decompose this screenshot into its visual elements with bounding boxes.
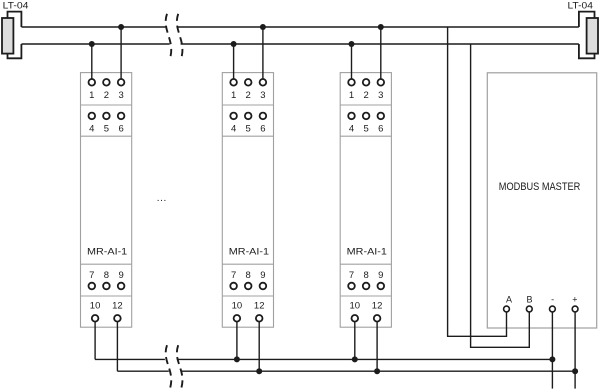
node: junction module1 t1 / bus B xyxy=(89,41,95,47)
svg-text:4: 4 xyxy=(231,123,236,134)
node: junction module3 t3 / bus A xyxy=(378,24,384,30)
svg-text:3: 3 xyxy=(260,90,265,101)
module #1 terminals 1 2 3 xyxy=(89,79,125,101)
wire: bottom bus line (-), left of break xyxy=(95,358,165,360)
break slash (left) xyxy=(166,345,172,388)
node: junction module2 t12 / bottom bus + xyxy=(256,368,262,374)
terminator LT-04 left xyxy=(2,0,28,58)
svg-text:10: 10 xyxy=(350,301,361,312)
MODBUS terminal "-" xyxy=(550,295,556,312)
node: junction module2 t3 / bus A xyxy=(260,24,266,30)
svg-text:10: 10 xyxy=(232,301,243,312)
svg-text:6: 6 xyxy=(378,123,383,134)
MODBUS terminal B xyxy=(526,295,532,312)
svg-text:A: A xyxy=(506,295,512,305)
break slash (right) xyxy=(177,14,183,59)
svg-text:LT-04: LT-04 xyxy=(568,0,593,11)
svg-text:9: 9 xyxy=(118,270,123,281)
svg-text:2: 2 xyxy=(246,90,251,101)
svg-text:1: 1 xyxy=(89,90,94,101)
svg-text:4: 4 xyxy=(89,123,94,134)
svg-text:4: 4 xyxy=(349,123,354,134)
svg-text:1: 1 xyxy=(231,90,236,101)
wire: module #2 terminal 12 to bottom bus (+) xyxy=(258,318,260,371)
module #3 terminals 1 2 3 xyxy=(348,79,384,101)
svg-text:10: 10 xyxy=(90,301,101,312)
wire: module #1 terminal 3 to bus A xyxy=(120,27,122,82)
module MR-AI-1 #1: body xyxy=(81,73,132,328)
svg-text:...: ... xyxy=(157,193,167,204)
svg-text:7: 7 xyxy=(349,270,354,281)
module #1 terminals 4 5 6 xyxy=(89,113,125,135)
module #1 terminals 10 12 xyxy=(90,301,123,322)
svg-text:8: 8 xyxy=(104,270,109,281)
svg-text:MR-AI-1: MR-AI-1 xyxy=(87,246,127,257)
terminator LT-04 right xyxy=(568,0,599,58)
node: junction module2 t10 / bottom bus - xyxy=(234,356,240,362)
wire: module #1 terminal 10 down to bottom bus (-) corner xyxy=(94,318,96,359)
svg-text:MODBUS MASTER: MODBUS MASTER xyxy=(499,181,581,193)
module #3 terminals 4 5 6 xyxy=(348,113,384,135)
svg-text:MR-AI-1: MR-AI-1 xyxy=(229,246,269,257)
svg-text:7: 7 xyxy=(231,270,236,281)
node: junction MODBUS - / bottom bus - xyxy=(549,356,555,362)
module MR-AI-1 #2: body xyxy=(222,73,273,328)
module MR-AI-1 #3: body xyxy=(340,73,391,328)
node: junction module2 t1 / bus B xyxy=(231,41,237,47)
wire: module #2 terminal 10 to bottom bus (-) xyxy=(236,318,238,359)
svg-text:2: 2 xyxy=(363,90,368,101)
wire: MODBUS terminal "+" down to bottom bus (+) xyxy=(574,309,576,389)
module #3 terminals 7 8 9 xyxy=(348,270,384,290)
svg-text:6: 6 xyxy=(118,123,123,134)
module #3 terminals 10 12 xyxy=(350,301,383,322)
wire: module #2 terminal 3 to bus A xyxy=(262,27,264,82)
device U4: MODBUS MASTER box xyxy=(487,73,596,328)
wire: top bus line B (lower), left of break xyxy=(21,43,169,45)
module #2 terminals 10 12 xyxy=(232,301,265,322)
svg-text:8: 8 xyxy=(246,270,251,281)
wire: module #1 terminal 1 to bus B xyxy=(91,44,93,82)
svg-text:LT-04: LT-04 xyxy=(3,0,29,11)
wire: top bus line A (upper), right of break xyxy=(177,26,579,28)
svg-text:3: 3 xyxy=(118,90,123,101)
module #2 terminals 7 8 9 xyxy=(230,270,266,290)
svg-text:-: - xyxy=(551,295,554,305)
wire: module #1 terminal 12 down to bottom bus (+) corner xyxy=(116,318,118,371)
wire: MODBUS terminal B to top bus B xyxy=(471,44,530,347)
svg-text:B: B xyxy=(526,295,532,305)
svg-text:9: 9 xyxy=(378,270,383,281)
wire: MODBUS terminal "-" down to bottom bus (-) xyxy=(551,309,553,389)
svg-text:5: 5 xyxy=(246,123,251,134)
svg-text:12: 12 xyxy=(254,301,265,312)
svg-text:8: 8 xyxy=(363,270,368,281)
svg-text:1: 1 xyxy=(349,90,354,101)
wire: module #3 terminal 1 to bus B xyxy=(351,44,353,82)
module #2 terminals 4 5 6 xyxy=(230,113,266,135)
wire: bottom bus line (+), right of break xyxy=(181,370,575,372)
wire: module #2 terminal 1 to bus B xyxy=(233,44,235,82)
break slash (left) xyxy=(166,14,172,59)
svg-text:7: 7 xyxy=(89,270,94,281)
wire: top bus line B (lower), right of break xyxy=(181,43,579,45)
node: junction module3 t10 / bottom bus - xyxy=(352,356,358,362)
MODBUS terminal A xyxy=(504,295,512,312)
wire: module #3 terminal 3 to bus A xyxy=(380,27,382,82)
svg-text:9: 9 xyxy=(260,270,265,281)
svg-text:5: 5 xyxy=(104,123,109,134)
svg-text:12: 12 xyxy=(112,301,123,312)
node: junction module3 t12 / bottom bus + xyxy=(374,368,380,374)
module #1 terminals 7 8 9 xyxy=(89,270,125,290)
node: junction MODBUS + / bottom bus + xyxy=(572,368,578,374)
MODBUS terminal "+" xyxy=(572,295,578,312)
svg-text:12: 12 xyxy=(372,301,383,312)
wire: top bus line A (upper), left of break xyxy=(21,26,165,28)
break slash (right) xyxy=(177,345,183,388)
node: junction module3 t1 / bus B xyxy=(349,41,355,47)
wire: bottom bus line (+), left of break xyxy=(117,370,168,372)
svg-text:6: 6 xyxy=(260,123,265,134)
module #2 terminals 1 2 3 xyxy=(230,79,266,101)
svg-text:MR-AI-1: MR-AI-1 xyxy=(347,246,387,257)
svg-text:2: 2 xyxy=(104,90,109,101)
node: junction module1 t3 / bus A xyxy=(118,24,124,30)
svg-text:3: 3 xyxy=(378,90,383,101)
svg-text:5: 5 xyxy=(363,123,368,134)
wire: module #3 terminal 12 to bottom bus (+) xyxy=(376,318,378,371)
svg-text:+: + xyxy=(572,295,577,305)
wire: module #3 terminal 10 to bottom bus (-) xyxy=(354,318,356,359)
wire: bottom bus line (-), right of break xyxy=(177,358,553,360)
wire: MODBUS terminal A to top bus A xyxy=(448,27,507,336)
